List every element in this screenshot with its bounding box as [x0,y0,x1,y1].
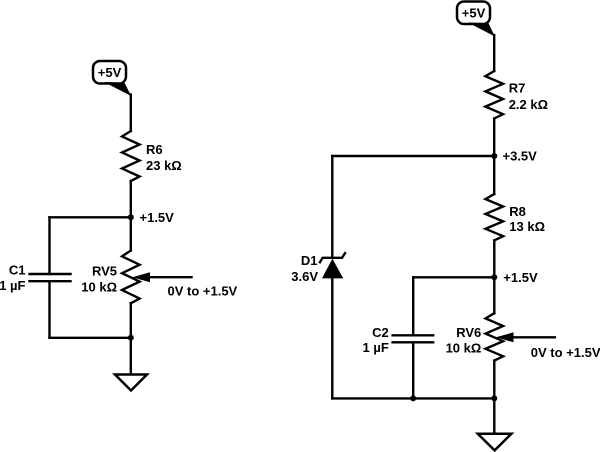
wire node to C1 branch [50,216,131,218]
svg-text:+5V: +5V [98,65,122,80]
wire D1 top [331,156,333,258]
node +1.5V (left) [128,214,134,220]
svg-text:RV6: RV6 [456,325,481,340]
svg-text:R6: R6 [146,142,163,157]
wire node to RV6 [493,277,495,313]
svg-text:10 kΩ: 10 kΩ [446,341,482,356]
svg-text:13 kΩ: 13 kΩ [509,219,545,234]
wire to ground (right) [493,398,495,433]
svg-text:0V to +1.5V: 0V to +1.5V [531,345,600,360]
svg-text:1 µF: 1 µF [0,278,26,293]
wire RV5 to bottom [130,303,132,338]
wire C1 top [48,217,50,274]
svg-text:10 kΩ: 10 kΩ [81,280,117,295]
svg-text:+1.5V: +1.5V [503,270,538,285]
svg-text:C2: C2 [372,325,389,340]
junction C2 bottom [410,395,416,401]
node +3.5V [491,153,497,159]
junction bottom (left) [128,335,134,341]
wire RV6 to bottom [493,361,495,399]
wire node +3.5V to D1 branch [332,155,494,157]
svg-text:2.2 kΩ: 2.2 kΩ [509,97,548,112]
svg-text:23 kΩ: 23 kΩ [146,158,182,173]
junction RV6 bottom [491,395,497,401]
wire node +3.5V to R8 [493,156,495,194]
wire D1 bottom [331,278,333,398]
wire to ground (left) [130,338,132,375]
wire C2 bottom [412,342,414,398]
wire C2 top [412,277,414,335]
wiper arrow RV5 [147,276,192,278]
wire +5V to R7 [493,35,495,71]
svg-text:R8: R8 [509,204,526,219]
wire R8 to node [493,240,495,277]
resistor R7 [485,71,503,119]
ground (right) [478,434,512,451]
svg-text:0V to +1.5V: 0V to +1.5V [168,284,238,299]
resistor R6 [122,131,140,181]
svg-text:R7: R7 [509,81,526,96]
wire bottom (left circuit) [50,337,131,339]
ground (left) [115,375,147,391]
potentiometer RV5 [122,251,140,304]
zener diode D1 [320,253,345,262]
svg-text:+3.5V: +3.5V [503,149,538,164]
svg-text:3.6V: 3.6V [291,269,318,284]
wire node to C2 branch [413,276,494,278]
svg-text:RV5: RV5 [92,264,117,279]
wiper arrow RV6 [511,336,555,338]
svg-text:1 µF: 1 µF [363,340,389,355]
wire node to RV5 [130,217,132,250]
capacitor C1 [30,273,71,275]
resistor R8 [486,194,504,240]
capacitor C2 [393,334,434,336]
wire R6 to node [130,181,132,217]
wire bottom (right circuit) [332,397,494,399]
node +1.5V (right) [491,274,497,280]
wire +5V to R6 [130,95,132,132]
svg-text:+1.5V: +1.5V [140,210,175,225]
svg-text:+5V: +5V [462,5,486,20]
wire C1 bottom [48,281,50,338]
svg-text:C1: C1 [9,263,26,278]
potentiometer RV6 [486,313,504,360]
svg-text:D1: D1 [301,253,318,268]
supply flag +5V (left) [93,61,126,84]
supply flag +5V (right) [457,2,490,25]
wire R7 to node [493,119,495,157]
